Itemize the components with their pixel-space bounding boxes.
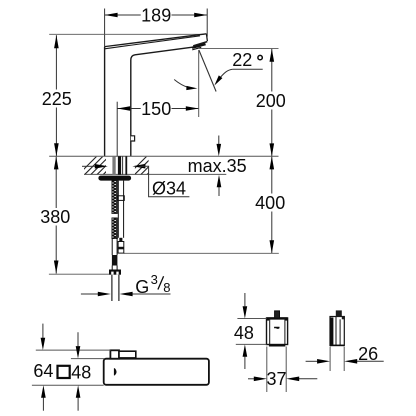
extension line outlet level for 200	[199, 48, 278, 50]
mounting flange under deck	[98, 176, 131, 181]
control box front view outline	[267, 318, 288, 345]
box 37 right arrow	[296, 378, 318, 380]
dark rod fitting band	[112, 255, 118, 266]
deck hatching right	[128, 157, 165, 176]
extension line top of spout for 225	[49, 33, 204, 35]
side view bottom edge	[330, 344, 344, 346]
svg-text:G: G	[135, 277, 149, 297]
diameter 34 right arrow	[132, 164, 145, 169]
box 48 bottom extension line	[236, 343, 267, 345]
22 degree leader line	[218, 69, 233, 80]
max.35 top arrow	[218, 136, 220, 145]
hose hex band	[118, 196, 125, 201]
hose end fitting band	[118, 247, 124, 250]
dimension 200 line lower	[271, 110, 273, 157]
square symbol	[58, 366, 70, 378]
dimension 380 line lower	[55, 226, 57, 274]
spout top edge outer	[105, 34, 207, 47]
supply nut	[109, 270, 121, 275]
plan view spout outline	[104, 359, 209, 385]
extension line 400 bottom	[124, 252, 279, 254]
svg-text:380: 380	[40, 207, 70, 227]
svg-text:3: 3	[151, 272, 158, 287]
aerator dark band	[192, 43, 206, 49]
aerator outlet lower line	[192, 47, 201, 50]
svg-text:48: 48	[234, 323, 254, 343]
22 degree leader arrowhead	[214, 75, 222, 85]
dimension 48 bottom arrow	[77, 398, 79, 411]
control box front inner walls	[270, 318, 285, 345]
control box sensor dash	[274, 327, 279, 329]
control box front corner ears	[267, 318, 270, 321]
plan view lever rectangle	[119, 351, 136, 358]
box 48 top extension line	[237, 318, 266, 320]
shank stripes in deck hole	[112, 156, 127, 175]
dimension 189 left arrowhead	[105, 13, 118, 18]
plan view sensor D mark	[114, 368, 117, 375]
dimension 225 bottom arrowhead	[54, 143, 59, 156]
dimension 200 top arrowhead	[270, 49, 275, 62]
control box top nub	[275, 311, 280, 318]
spout top edge inner	[105, 36, 200, 49]
dimension 189 right extension line	[206, 9, 208, 37]
control box front bottom thick edge	[269, 345, 285, 347]
dimension 200 bottom arrowhead	[270, 143, 275, 156]
side view clip	[336, 310, 342, 316]
plain rod below threads	[112, 239, 117, 255]
diameter 34 leader	[139, 166, 189, 197]
dimension 189 right arrowhead	[194, 13, 207, 18]
degree symbol	[258, 55, 262, 59]
control box side view body	[330, 317, 344, 346]
dimension 400 bottom arrowhead	[270, 240, 275, 253]
sensor tab on body right	[131, 136, 135, 141]
svg-text:max.35: max.35	[188, 156, 247, 176]
dimension 150 line right	[172, 108, 199, 110]
dimension 400 line upper	[271, 156, 273, 193]
box 37 left arrow	[248, 378, 258, 380]
body centre tick for 150	[116, 102, 118, 156]
extension line 380 bottom	[49, 273, 109, 275]
svg-text:189: 189	[141, 5, 171, 25]
G 3/8 right arrow with tail	[132, 293, 171, 295]
plan bottom extension line	[32, 384, 104, 386]
dimension 48 top arrow	[77, 332, 79, 346]
dimension 189 left extension line	[104, 9, 106, 48]
plan 48 top extension line	[71, 358, 105, 360]
dimension 64 bottom arrow	[42, 398, 44, 411]
deck hatching left	[78, 157, 121, 176]
control box front top thick edge	[267, 317, 288, 319]
svg-text:150: 150	[141, 99, 171, 119]
svg-text:48: 48	[71, 362, 91, 382]
svg-text:64: 64	[33, 361, 53, 381]
svg-text:Ø34: Ø34	[152, 178, 186, 198]
hose end fitting body	[118, 242, 124, 254]
threaded rod upper section	[112, 181, 118, 214]
water flow 22 degree line	[199, 50, 216, 92]
box 26 extension lines	[330, 347, 344, 372]
G 3/8 text	[135, 272, 170, 297]
svg-text:200: 200	[256, 91, 286, 111]
threaded rod lower section	[112, 218, 118, 239]
spout bottom edge and body right edge with rounded corner	[131, 47, 193, 156]
dimension 400 top arrowhead	[270, 156, 275, 169]
box 48 top arrow	[244, 293, 246, 306]
plan 64 top extension line	[36, 349, 111, 351]
angle arc arrow	[174, 80, 188, 88]
svg-text:225: 225	[42, 89, 72, 109]
dimension 200 line upper	[271, 49, 273, 92]
svg-text:400: 400	[255, 193, 285, 213]
box 26 left arrow	[306, 360, 322, 362]
dimension 150 left arrowhead	[117, 106, 130, 111]
dimension 225 line upper	[55, 35, 57, 89]
counter deck bottom line	[84, 173, 226, 175]
dimension 225 line lower	[55, 108, 57, 157]
svg-text:8: 8	[163, 280, 170, 295]
dimension 150 right arrowhead	[186, 106, 199, 111]
dimension 380 top arrowhead	[54, 156, 59, 169]
dimension 380 line upper	[55, 156, 57, 208]
rod below band	[112, 266, 117, 270]
supply pipe	[112, 275, 119, 301]
hose outline	[118, 181, 123, 238]
side view dark left wall	[330, 318, 333, 345]
spout tip face	[206, 34, 207, 41]
box 48 bottom arrow	[244, 357, 246, 369]
counter deck top line	[49, 155, 278, 157]
side view clip bar	[342, 316, 345, 319]
dimension 225 top arrowhead	[54, 35, 59, 48]
dimension 400 line lower	[271, 212, 273, 254]
plan view lever square	[110, 350, 119, 358]
side view inner lines	[336, 317, 340, 346]
dimension 189 line	[105, 14, 208, 16]
box 26 right arrow	[353, 360, 384, 362]
spout tip chamfer	[193, 42, 207, 46]
box 37 extension lines	[267, 347, 286, 393]
dimension 64 top arrow	[42, 324, 44, 338]
svg-text:26: 26	[358, 344, 378, 364]
G 3/8 left arrow	[81, 293, 98, 295]
vertical reference line at outlet	[198, 50, 200, 117]
faucet back edge	[104, 47, 106, 156]
dimension 150 line left	[117, 108, 141, 110]
hose end fitting neck	[119, 238, 122, 242]
diameter 34 left arrow	[82, 165, 96, 167]
max.35 bottom arrow	[218, 187, 220, 196]
dimension 380 bottom arrowhead	[54, 261, 59, 274]
svg-text:37: 37	[266, 369, 286, 389]
svg-text:22: 22	[232, 50, 252, 70]
22 degree underline	[233, 68, 263, 70]
